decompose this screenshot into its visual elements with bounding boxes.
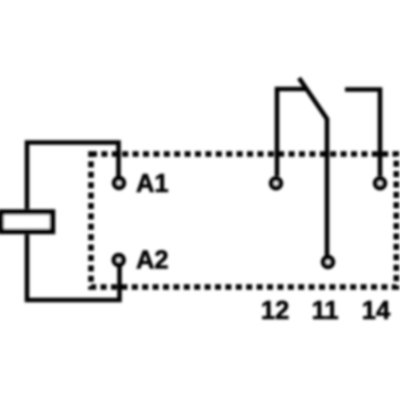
svg-text:11: 11 [312,297,339,325]
pin 14 (terminal circle) [375,179,384,188]
pin A2 (terminal circle) [114,255,123,264]
pin 11 (terminal circle) [323,257,332,266]
svg-text:A2: A2 [136,247,169,275]
wire: coil bottom to pin A2 [27,235,120,301]
pin A1 (terminal circle) [114,178,123,187]
wire: fixed contact 14 (bracket down to pin 14) [345,90,380,177]
relay body outline (dotted rectangle) [91,154,396,287]
wire: coil top to pin A1 [27,143,119,210]
svg-text:14: 14 [362,297,391,325]
svg-text:12: 12 [261,297,289,325]
coil (relay coil rectangle) [1,212,53,232]
svg-text:A1: A1 [136,170,169,198]
wire: fixed contact 12 (L-shape up from pin 12) [277,89,306,176]
switch blade (common contact from pin 11) [299,78,327,256]
pin 12 (terminal circle) [271,179,280,188]
